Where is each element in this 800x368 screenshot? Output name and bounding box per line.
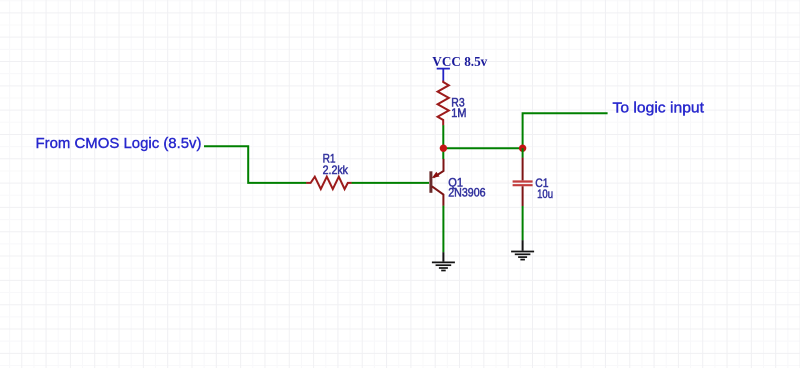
label C1 <box>535 176 549 190</box>
svg-text:2.2kk: 2.2kk <box>323 163 349 177</box>
svg-text:10u: 10u <box>537 187 553 201</box>
svg-text:VCC 8.5v: VCC 8.5v <box>432 55 487 70</box>
net label "To logic input" <box>613 100 705 117</box>
svg-text:2N3906: 2N3906 <box>448 186 486 200</box>
net label VCC 8.5v <box>432 55 487 70</box>
label R1 <box>323 152 336 166</box>
capacitor C1 plates <box>513 182 533 186</box>
value 2N3906 <box>448 186 486 200</box>
wire node B to C1 <box>522 148 524 158</box>
transistor Q1 emitter pin <box>432 159 444 178</box>
capacitor C1 bottom lead <box>522 186 524 206</box>
wire C1 to ground <box>522 206 524 240</box>
transistor Q1 collector pin <box>432 186 444 206</box>
svg-text:To logic input: To logic input <box>613 100 705 117</box>
svg-text:From CMOS Logic (8.5v): From CMOS Logic (8.5v) <box>36 135 202 152</box>
junction node B <box>519 145 526 152</box>
label R3 <box>451 96 465 110</box>
wire R1 to Q1 base <box>352 182 429 184</box>
label Q1 <box>448 176 463 190</box>
ground under Q1 <box>432 252 455 270</box>
wire node A to node B <box>443 147 522 149</box>
wire node B to logic output label <box>523 113 608 148</box>
value 1M <box>451 106 466 120</box>
ground under C1 <box>511 240 534 259</box>
value 10u <box>537 187 553 201</box>
net label "From CMOS Logic (8.5v)" <box>36 135 202 152</box>
resistor R1 <box>306 177 352 189</box>
power symbol VCC <box>437 69 450 81</box>
svg-text:1M: 1M <box>451 106 466 120</box>
wire R3 to node A <box>442 125 444 159</box>
wire Q1 collector to ground <box>442 206 444 253</box>
resistor R3 <box>438 81 449 126</box>
transistor Q1 base bar <box>429 171 432 193</box>
capacitor C1 top lead <box>522 158 524 181</box>
junction node A <box>440 145 447 152</box>
wire from input label to R1 <box>204 146 306 183</box>
value 2.2kk <box>323 163 349 177</box>
